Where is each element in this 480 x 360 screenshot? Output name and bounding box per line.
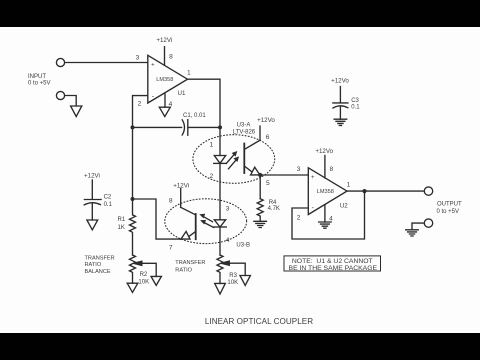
svg-text:4: 4 xyxy=(169,101,173,108)
svg-text:C3: C3 xyxy=(351,98,359,104)
svg-text:TRANSFER: TRANSFER xyxy=(85,255,115,261)
wire J2 to ground xyxy=(65,96,77,107)
svg-text:1: 1 xyxy=(209,141,213,148)
wire C3 to ground xyxy=(339,107,341,119)
+12Vi lead U3-B collector xyxy=(180,189,182,208)
svg-text:INPUT: INPUT xyxy=(28,74,46,80)
ground (R2 bottom, triangle) xyxy=(127,283,138,292)
node dot rail right xyxy=(218,125,222,129)
ground (input return, triangle) xyxy=(71,106,82,117)
ground (R4, bar style) xyxy=(254,221,267,227)
trimmer R2 resistor body xyxy=(130,255,136,283)
svg-text:10K: 10K xyxy=(227,280,238,286)
wire pin5 node to R4 xyxy=(259,175,261,199)
svg-text:8: 8 xyxy=(169,54,173,61)
phototransistor U3-A collector xyxy=(244,126,260,150)
capacitor C3 curved plate xyxy=(333,106,348,108)
svg-text:5: 5 xyxy=(266,180,270,187)
svg-text:+12Vo: +12Vo xyxy=(331,77,349,84)
LED U3-A (diode triangle) xyxy=(214,156,225,164)
input terminal J2 xyxy=(56,91,64,99)
letterbox bottom bar xyxy=(0,333,480,360)
trimmer R2 wiper wire xyxy=(142,263,157,276)
svg-text:R2: R2 xyxy=(140,272,148,278)
svg-text:10K: 10K xyxy=(138,280,149,286)
svg-text:0.1: 0.1 xyxy=(351,105,360,111)
svg-text:BALANCE: BALANCE xyxy=(85,269,111,275)
wire C1 to node xyxy=(188,126,220,128)
svg-text:U1: U1 xyxy=(178,90,186,97)
ground (R3 bottom, triangle) xyxy=(215,283,226,294)
input terminal J1 xyxy=(56,58,64,66)
node dot U3-A emitter / pin 5 xyxy=(258,173,262,177)
svg-text:RATIO: RATIO xyxy=(85,262,102,268)
light arrow 2 U3-B head xyxy=(200,220,206,225)
phototransistor U3-A emitter arrowhead (open) xyxy=(251,167,260,175)
svg-text:3: 3 xyxy=(297,166,301,173)
node dot rail left xyxy=(131,125,135,129)
phototransistor U3-B base bar xyxy=(195,214,197,239)
svg-text:U2: U2 xyxy=(340,203,348,210)
capacitor C1 curved plate xyxy=(182,120,184,135)
svg-text:2: 2 xyxy=(297,214,301,221)
+12Vo lead C3 xyxy=(339,87,341,103)
svg-text:+12Vo: +12Vo xyxy=(315,148,333,155)
capacitor C2 straight plate xyxy=(84,199,101,201)
wire LED U3-B to R3 xyxy=(219,227,221,255)
svg-text:4: 4 xyxy=(226,237,230,244)
svg-text:2: 2 xyxy=(138,101,142,108)
node dot U2 output xyxy=(362,189,366,193)
ground (J4, bar style) xyxy=(406,230,419,236)
svg-text:0 to +5V: 0 to +5V xyxy=(437,209,460,215)
wire U2 feedback loop xyxy=(292,191,365,239)
light arrow 1 U3-B xyxy=(202,216,213,222)
ground (U1 pin 4, triangle) xyxy=(159,107,170,116)
phototransistor U3-B emitter xyxy=(190,232,196,237)
wire U1 output xyxy=(188,79,221,127)
trimmer R3 resistor body xyxy=(217,255,223,283)
svg-text:6: 6 xyxy=(266,134,270,141)
svg-text:3: 3 xyxy=(136,55,140,62)
wire J4 to ground xyxy=(412,223,424,230)
svg-text:TRANSFER: TRANSFER xyxy=(175,260,205,266)
letterbox top bar xyxy=(0,0,480,27)
svg-text:1K: 1K xyxy=(118,225,125,231)
wire U1 pin 4 xyxy=(164,94,166,107)
wire C2 to ground xyxy=(91,204,93,220)
LED U3-A cathode bar xyxy=(214,162,227,164)
node dot R1 top xyxy=(131,197,135,201)
svg-text:R4: R4 xyxy=(269,200,277,206)
svg-text:0 to +5V: 0 to +5V xyxy=(28,80,51,86)
wire node to LED U3-A xyxy=(219,127,221,155)
ground (C3, bar style) xyxy=(334,119,347,125)
light arrow 2 U3-A head xyxy=(233,156,239,162)
svg-text:8: 8 xyxy=(329,166,333,173)
svg-text:+: + xyxy=(151,63,155,69)
svg-text:LM358: LM358 xyxy=(317,189,334,195)
wire pin5 node to U2 pin 3 xyxy=(260,174,308,176)
wire U1 pin 2 feedback xyxy=(133,96,148,128)
wire rail to R1 node xyxy=(132,127,134,199)
svg-text:+12Vi: +12Vi xyxy=(84,173,100,180)
svg-text:1: 1 xyxy=(347,182,351,189)
resistor R4 xyxy=(257,199,263,222)
trimmer R3 wiper arrow xyxy=(221,261,229,265)
resistor R1 xyxy=(130,199,136,255)
note box xyxy=(284,256,381,271)
light arrow 1 U3-B head xyxy=(199,214,205,219)
output terminal J4 xyxy=(424,219,432,227)
phototransistor U3-B collector xyxy=(181,207,196,215)
light arrow 2 U3-B xyxy=(203,222,214,228)
svg-text:R3: R3 xyxy=(229,273,237,279)
op-amp U2 xyxy=(308,168,347,215)
svg-text:+12Vi: +12Vi xyxy=(173,182,189,189)
LED U3-B cathode bar xyxy=(214,226,227,228)
phototransistor U3-B emitter arrowhead (open) xyxy=(181,231,190,239)
svg-text:2: 2 xyxy=(209,173,213,180)
capacitor C3 straight plate xyxy=(333,102,348,104)
phototransistor U3-A emitter xyxy=(244,166,251,172)
LED U3-B (diode triangle) xyxy=(214,220,225,227)
svg-text:U3-B: U3-B xyxy=(236,242,250,248)
svg-text:U3-A: U3-A xyxy=(237,122,251,128)
svg-text:+12Vo: +12Vo xyxy=(257,117,275,124)
wire R1 node to U3-B emitter xyxy=(133,199,181,239)
capacitor C1 straight plate xyxy=(187,120,189,136)
wire U2 pin 8 to +12Vo xyxy=(324,156,326,179)
capacitor C2 curved plate xyxy=(84,203,100,205)
svg-text:+12Vi: +12Vi xyxy=(156,37,172,44)
ground (R2 wiper, triangle) xyxy=(151,276,161,285)
wire LED U3-A to LED U3-B xyxy=(219,163,221,219)
trimmer R3 wiper wire xyxy=(229,263,245,275)
svg-text:+: + xyxy=(311,175,315,181)
svg-text:0.1: 0.1 xyxy=(104,202,113,208)
svg-text:RATIO: RATIO xyxy=(175,268,192,274)
svg-text:3: 3 xyxy=(226,206,230,213)
wire U2 pin 4 xyxy=(324,205,326,222)
svg-text:BE IN THE SAME PACKAGE: BE IN THE SAME PACKAGE xyxy=(289,265,378,272)
+12Vi lead C2 xyxy=(91,180,93,199)
dashed package outline U3-A xyxy=(193,135,275,184)
wire rail to C1 xyxy=(133,126,182,128)
wire U1 pin 8 to +12Vi xyxy=(164,47,166,65)
svg-text:R1: R1 xyxy=(118,217,126,223)
output terminal J3 xyxy=(424,187,432,195)
phototransistor U3-A base bar xyxy=(243,144,245,174)
light arrow 2 U3-A xyxy=(229,160,237,169)
dashed package outline U3-B xyxy=(165,199,247,244)
ground (R3 wiper, triangle) xyxy=(240,276,250,286)
svg-text:C2: C2 xyxy=(104,194,112,200)
ground (C2, triangle) xyxy=(87,220,98,230)
svg-text:1: 1 xyxy=(187,69,191,76)
wire J1 to U1 pin 3 xyxy=(65,62,148,64)
svg-text:C1, 0.01: C1, 0.01 xyxy=(183,113,206,119)
light arrow 1 U3-A head xyxy=(232,151,238,157)
svg-text:OUTPUT: OUTPUT xyxy=(437,202,462,208)
op-amp U1 xyxy=(148,55,188,103)
svg-text:LTV-826: LTV-826 xyxy=(233,129,256,135)
light arrow 1 U3-A xyxy=(226,154,234,164)
svg-text:LINEAR OPTICAL COUPLER: LINEAR OPTICAL COUPLER xyxy=(205,317,313,326)
ground (U2 pin 4, bar style) xyxy=(319,222,332,228)
wire U2 output xyxy=(347,190,424,192)
svg-text:7: 7 xyxy=(169,244,173,251)
trimmer R2 wiper arrow xyxy=(134,261,142,265)
svg-text:LM358: LM358 xyxy=(156,77,173,83)
svg-text:NOTE: U1 & U2 CANNOT: NOTE: U1 & U2 CANNOT xyxy=(292,258,373,265)
svg-text:4.7K: 4.7K xyxy=(268,206,280,212)
svg-text:8: 8 xyxy=(169,198,173,205)
svg-text:4: 4 xyxy=(329,215,333,222)
